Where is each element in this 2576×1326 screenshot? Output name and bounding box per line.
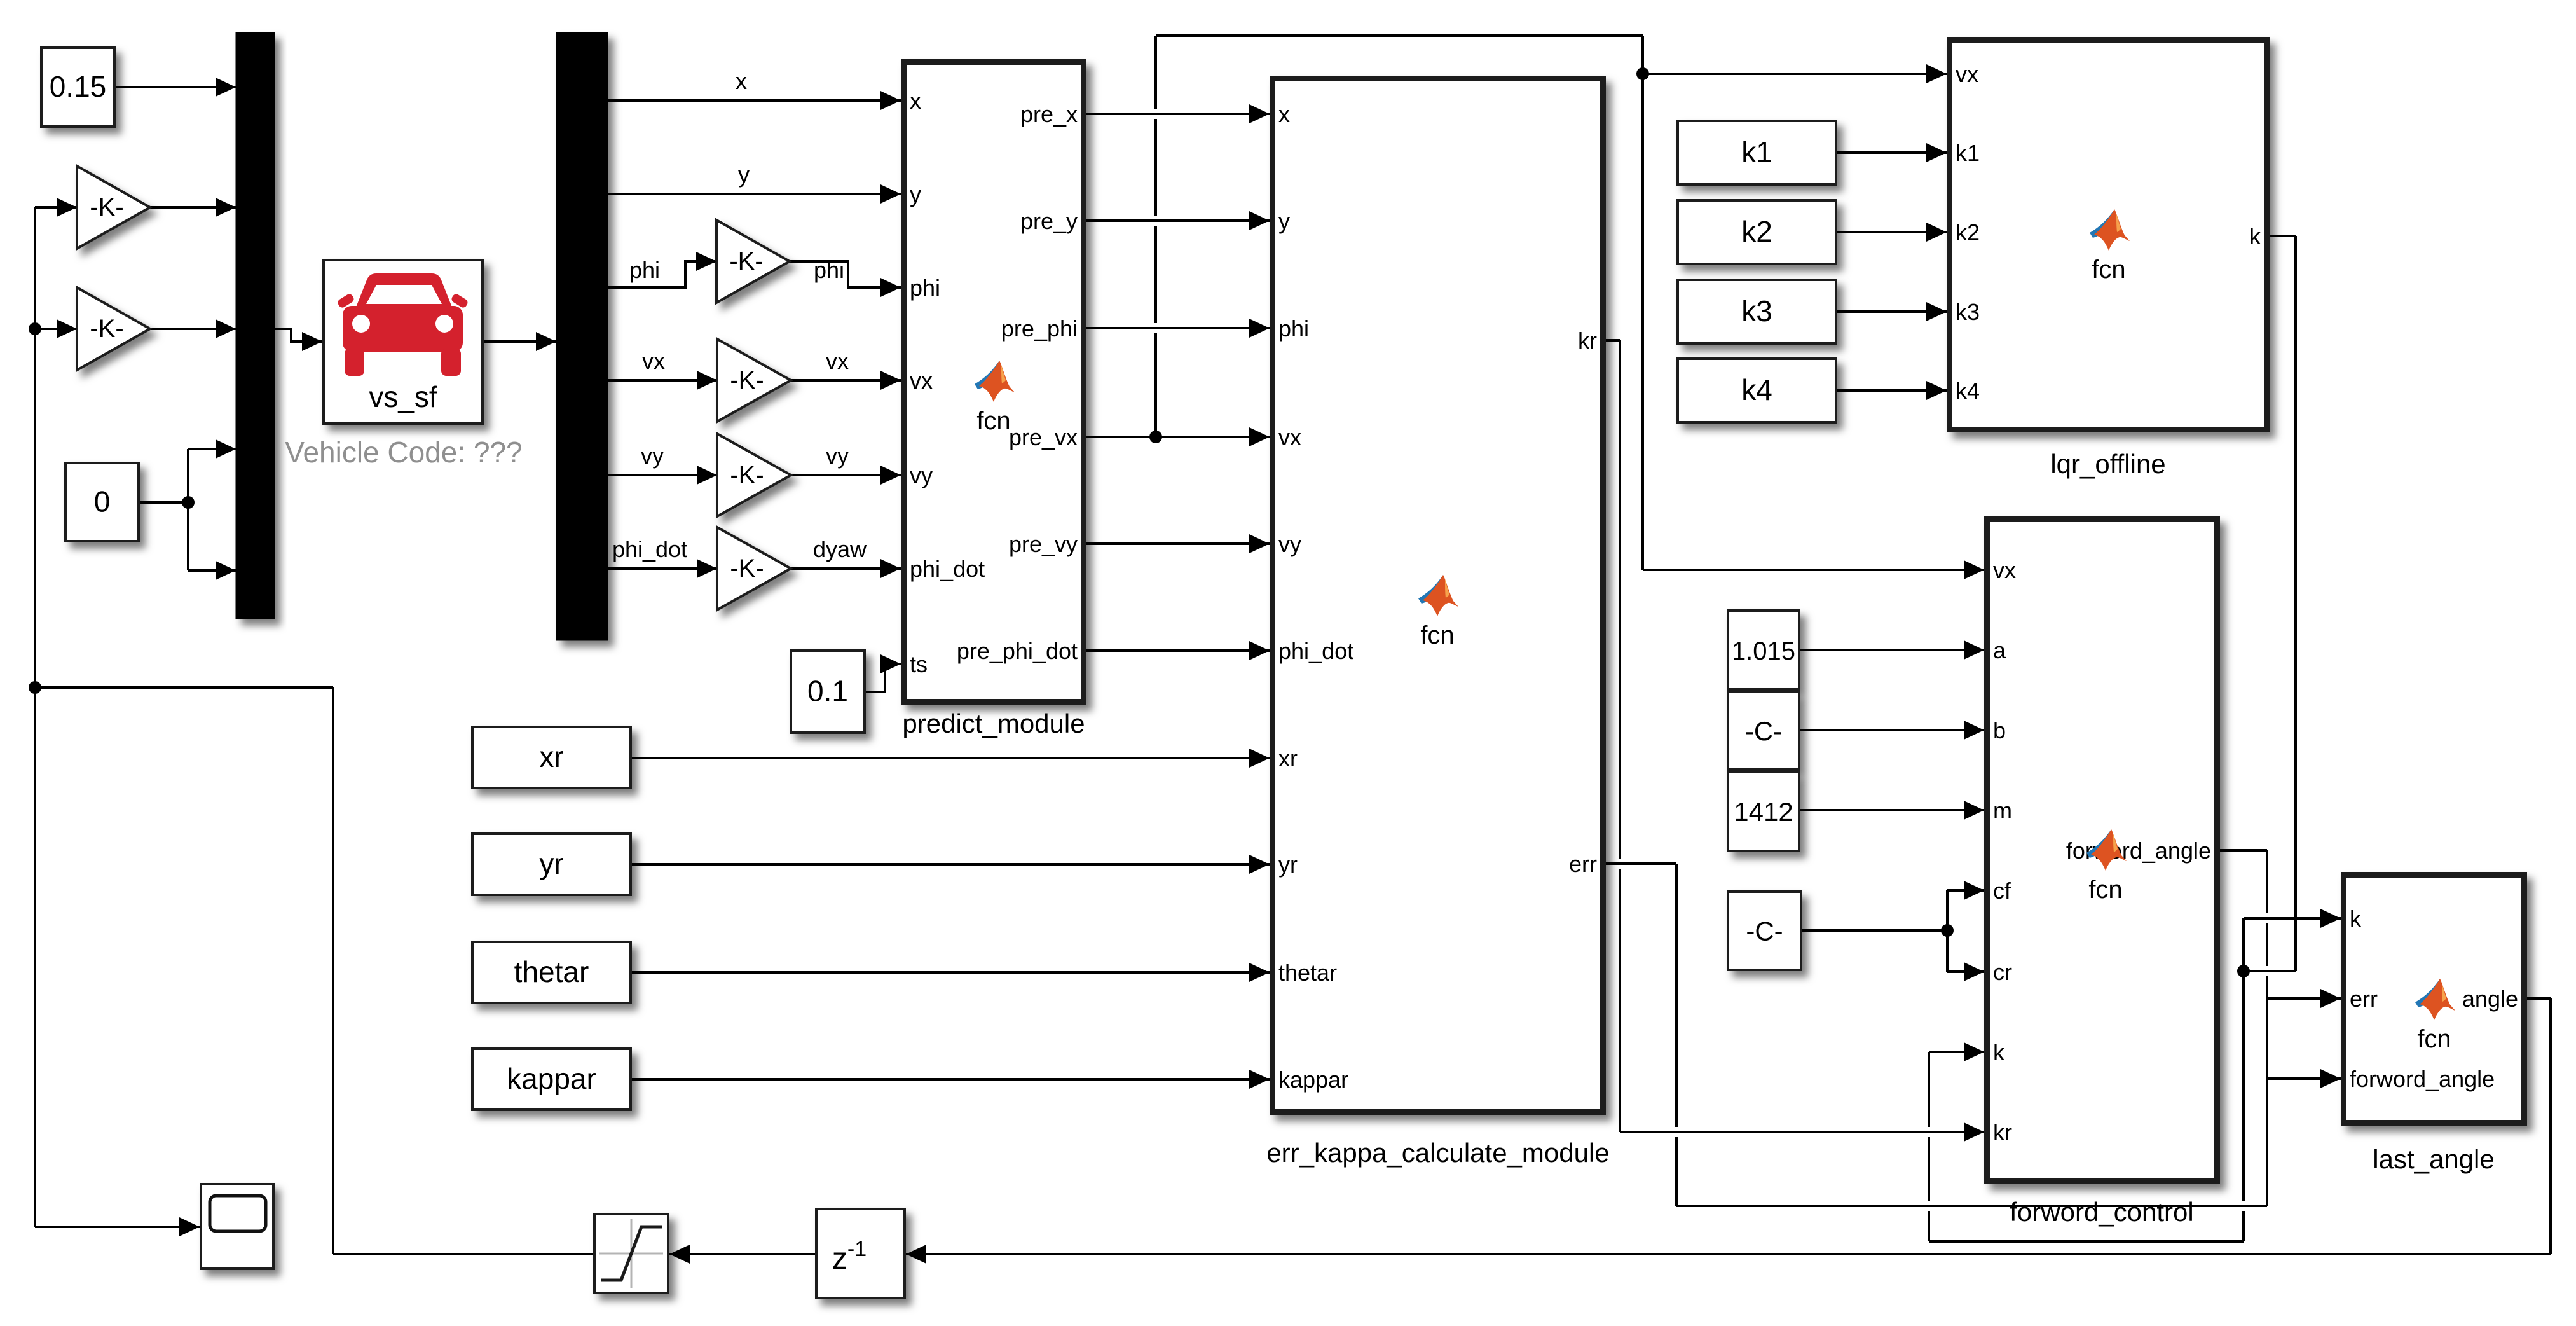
car icon — [336, 273, 469, 376]
constant k4 — [1678, 359, 1836, 422]
svg-text:x: x — [1278, 101, 1290, 127]
svg-text:lqr_offline: lqr_offline — [2050, 449, 2165, 479]
wire — [188, 448, 236, 450]
svg-text:0: 0 — [94, 485, 111, 518]
wire — [1802, 929, 1947, 932]
wire — [1947, 970, 1984, 973]
constant 0.15 — [41, 48, 114, 127]
wire — [2242, 971, 2245, 1241]
svg-text:thetar: thetar — [514, 955, 589, 988]
constant 1.015 — [1728, 611, 1799, 689]
wire — [632, 863, 1270, 866]
svg-text:-K-: -K- — [730, 366, 764, 394]
arrowhead — [1964, 801, 1984, 820]
arrowhead — [697, 559, 717, 578]
svg-text:y: y — [738, 162, 750, 188]
arrowhead — [1964, 1042, 1984, 1061]
wire — [188, 569, 236, 572]
subsystem err_kappa_calculate_module — [1273, 79, 1603, 1112]
svg-text:-K-: -K- — [729, 247, 763, 275]
arrowhead — [216, 78, 236, 97]
svg-text:-C-: -C- — [1745, 716, 1782, 746]
svg-text:err_kappa_calculate_module: err_kappa_calculate_module — [1266, 1138, 1609, 1168]
wire — [150, 328, 236, 330]
wire — [35, 686, 333, 689]
svg-text:forword_control: forword_control — [2010, 1197, 2193, 1227]
subsystem lqr_offline — [1950, 40, 2267, 430]
svg-text:-K-: -K- — [90, 193, 123, 221]
svg-text:cr: cr — [1993, 959, 2012, 985]
wire — [2294, 236, 2297, 971]
arrowhead — [696, 252, 716, 271]
wire — [906, 1253, 2551, 1255]
arrowhead — [1964, 721, 1984, 740]
svg-text:vx: vx — [1278, 424, 1301, 450]
svg-text:a: a — [1993, 637, 2006, 663]
wire — [1676, 1205, 2267, 1207]
svg-text:vx: vx — [826, 348, 849, 374]
svg-text:pre_vy: pre_vy — [1009, 531, 1078, 557]
constant yr — [472, 834, 631, 895]
wire — [1086, 542, 1270, 545]
svg-text:ts: ts — [910, 651, 928, 677]
arrowhead — [216, 561, 236, 580]
svg-text:1.015: 1.015 — [1732, 637, 1795, 665]
wire — [1620, 1131, 1984, 1133]
wire — [187, 449, 189, 570]
wire — [608, 193, 901, 195]
constant k2 — [1678, 200, 1836, 264]
svg-text:0.15: 0.15 — [50, 70, 107, 103]
wire — [608, 379, 717, 382]
fcn MATLAB icon — [1418, 575, 1458, 616]
wire — [2549, 998, 2552, 1254]
arrowhead — [302, 332, 322, 351]
fcn MATLAB icon — [975, 361, 1015, 402]
svg-text:phi_dot: phi_dot — [910, 556, 985, 582]
wire — [35, 1226, 200, 1228]
svg-text:fcn: fcn — [976, 407, 1010, 435]
arrowhead — [57, 319, 77, 338]
wire — [1947, 889, 1984, 892]
wire — [1800, 649, 1984, 651]
wire — [1929, 1051, 1984, 1053]
svg-text:pre_y: pre_y — [1020, 208, 1078, 234]
wire — [1643, 73, 1947, 75]
wire — [608, 474, 717, 476]
wire — [1643, 569, 1984, 571]
svg-text:k1: k1 — [1956, 140, 1980, 166]
wire — [1086, 327, 1270, 329]
svg-text:k4: k4 — [1741, 373, 1772, 406]
unit delay z-1 — [816, 1209, 905, 1298]
arrowhead — [1964, 1122, 1984, 1142]
svg-text:kr: kr — [1993, 1119, 2012, 1145]
svg-text:vx: vx — [642, 348, 665, 374]
svg-text:vy: vy — [641, 443, 664, 469]
wire — [1619, 340, 1621, 1132]
wire — [790, 261, 901, 287]
arrowhead — [1249, 211, 1270, 230]
constant xr — [472, 727, 631, 788]
arrowhead — [1249, 855, 1270, 874]
svg-text:phi: phi — [1278, 315, 1309, 342]
arrowhead — [216, 198, 236, 217]
wire — [608, 261, 716, 287]
wire — [866, 664, 901, 692]
fcn MATLAB icon — [2415, 979, 2455, 1020]
svg-text:k2: k2 — [1956, 219, 1980, 245]
wire — [275, 329, 322, 342]
arrowhead — [1249, 641, 1270, 660]
svg-text:pre_x: pre_x — [1020, 101, 1078, 127]
constant k3 — [1678, 280, 1836, 343]
constant kappar — [472, 1049, 631, 1110]
gain -K- 4 — [717, 339, 791, 422]
svg-text:predict_module: predict_module — [902, 708, 1085, 738]
arrowhead — [2320, 909, 2341, 928]
arrowhead — [57, 198, 77, 217]
wire — [2270, 235, 2296, 237]
svg-text:0.1: 0.1 — [807, 675, 848, 708]
gain -K- 2 — [77, 287, 150, 370]
svg-text:yr: yr — [1278, 852, 1298, 878]
svg-text:pre_phi_dot: pre_phi_dot — [957, 638, 1078, 664]
wire — [35, 206, 77, 209]
wire — [1928, 1052, 1930, 1241]
wire — [2267, 997, 2341, 1000]
svg-text:kr: kr — [1578, 328, 1597, 354]
svg-text:m: m — [1993, 798, 2012, 824]
svg-text:b: b — [1993, 717, 2006, 743]
wire — [1641, 36, 1644, 570]
constant thetar — [472, 942, 631, 1003]
wire — [791, 379, 901, 382]
constant 0 — [65, 463, 139, 541]
svg-text:vy: vy — [826, 443, 849, 469]
arrowhead — [669, 1245, 690, 1264]
wire — [791, 474, 901, 476]
svg-text:phi: phi — [629, 257, 660, 283]
wire — [35, 328, 77, 330]
constant 1412 — [1728, 772, 1799, 851]
svg-text:k: k — [1993, 1039, 2005, 1065]
constant -C- b — [1728, 692, 1799, 770]
constant -C- cf cr — [1728, 892, 1801, 970]
wire — [1086, 219, 1270, 222]
junction — [1941, 924, 1954, 937]
wire — [1946, 890, 1949, 972]
svg-text:vx: vx — [1993, 557, 2016, 583]
arrowhead — [880, 371, 901, 390]
wire — [1606, 339, 1620, 342]
svg-text:kappar: kappar — [1278, 1067, 1348, 1093]
constant 0.1 — [791, 651, 865, 733]
wire — [608, 99, 901, 102]
svg-text:kappar: kappar — [507, 1062, 596, 1095]
svg-text:k3: k3 — [1956, 299, 1980, 325]
arrowhead — [880, 654, 901, 673]
wire — [333, 1253, 593, 1255]
constant k1 — [1678, 121, 1836, 184]
wire — [2244, 917, 2341, 920]
arrowhead — [880, 184, 901, 204]
svg-text:fcn: fcn — [2092, 256, 2125, 284]
wire — [1837, 231, 1947, 233]
svg-text:k1: k1 — [1741, 135, 1772, 169]
svg-text:err: err — [1569, 851, 1597, 877]
wire — [1606, 862, 1676, 865]
arrowhead — [1249, 963, 1270, 982]
wire — [1837, 389, 1947, 392]
arrowhead — [1926, 223, 1947, 242]
wire — [1837, 151, 1947, 154]
svg-text:cf: cf — [1993, 878, 2011, 904]
svg-text:forword_angle: forword_angle — [2066, 838, 2211, 864]
arrowhead — [179, 1217, 200, 1236]
wire — [2267, 1077, 2341, 1080]
svg-text:vx: vx — [910, 368, 933, 394]
junction — [182, 496, 195, 509]
wire — [608, 567, 717, 570]
svg-text:vs_sf: vs_sf — [369, 380, 437, 413]
wire — [1675, 864, 1678, 1206]
arrowhead — [1249, 319, 1270, 338]
arrowhead — [216, 319, 236, 338]
svg-text:thetar: thetar — [1278, 960, 1337, 986]
arrowhead — [1249, 427, 1270, 446]
arrowhead — [1926, 381, 1947, 400]
wire — [1086, 649, 1270, 652]
svg-text:k: k — [2350, 906, 2362, 932]
wire — [791, 567, 901, 570]
wire — [1156, 34, 1643, 37]
wire — [632, 757, 1270, 759]
svg-text:k3: k3 — [1741, 294, 1772, 328]
wire — [1800, 809, 1984, 811]
svg-text:1412: 1412 — [1734, 797, 1793, 827]
wire — [2220, 849, 2267, 852]
arrowhead — [1926, 302, 1947, 321]
svg-text:fcn: fcn — [2417, 1025, 2451, 1053]
wire — [484, 340, 556, 343]
svg-text:fcn: fcn — [2088, 876, 2122, 904]
svg-text:phi: phi — [814, 257, 844, 283]
gain -K- 5 — [717, 434, 791, 516]
svg-text:-K-: -K- — [90, 315, 123, 343]
arrowhead — [906, 1245, 926, 1264]
wire — [150, 206, 236, 209]
fcn MATLAB icon — [2086, 829, 2127, 871]
arrowhead — [1249, 534, 1270, 553]
arrowhead — [880, 278, 901, 297]
wire — [632, 1078, 1270, 1081]
arrowhead — [697, 371, 717, 390]
subsystem forword_control — [1987, 520, 2217, 1182]
wire — [669, 1253, 815, 1255]
scope screen — [210, 1196, 266, 1231]
svg-text:phi_dot: phi_dot — [612, 536, 687, 562]
wire — [140, 501, 188, 504]
wire — [1837, 310, 1947, 313]
wire — [1800, 729, 1984, 731]
wire — [116, 86, 236, 88]
junction — [1149, 431, 1162, 443]
arrowhead — [536, 332, 556, 351]
svg-text:yr: yr — [539, 847, 563, 880]
wire — [332, 687, 334, 1254]
arrowhead — [1926, 143, 1947, 162]
arrowhead — [1249, 104, 1270, 123]
subsystem vs_sf — [324, 260, 483, 424]
arrowhead — [216, 439, 236, 459]
svg-text:k2: k2 — [1741, 215, 1772, 248]
arrowhead — [880, 559, 901, 578]
svg-text:forword_angle: forword_angle — [2350, 1066, 2495, 1092]
svg-text:pre_phi: pre_phi — [1001, 315, 1078, 342]
svg-text:x: x — [910, 88, 921, 114]
svg-text:phi_dot: phi_dot — [1278, 638, 1353, 664]
subsystem last_angle — [2344, 875, 2525, 1123]
arrowhead — [1964, 560, 1984, 579]
gain -K- 3 — [716, 220, 790, 303]
svg-text:phi: phi — [910, 275, 940, 301]
junction — [29, 681, 41, 694]
wire — [2242, 918, 2245, 971]
arrowhead — [880, 91, 901, 110]
arrowhead — [1964, 962, 1984, 981]
svg-text:k4: k4 — [1956, 378, 1980, 404]
junction — [29, 322, 41, 335]
svg-text:y: y — [1278, 208, 1290, 234]
svg-text:err: err — [2350, 986, 2378, 1012]
svg-text:-K-: -K- — [730, 461, 764, 489]
wire — [632, 971, 1270, 974]
svg-text:k: k — [2249, 223, 2261, 249]
wire — [34, 207, 36, 1227]
svg-text:xr: xr — [1278, 745, 1298, 771]
svg-text:Vehicle Code: ???: Vehicle Code: ??? — [285, 436, 522, 469]
gain -K- 6 — [717, 527, 791, 610]
svg-text:last_angle: last_angle — [2373, 1144, 2494, 1174]
arrowhead — [1964, 640, 1984, 660]
arrowhead — [697, 466, 717, 485]
wire — [2527, 997, 2551, 1000]
wire — [2266, 850, 2268, 1206]
arrowhead — [1964, 881, 1984, 900]
svg-text:y: y — [910, 181, 921, 207]
wire — [1086, 113, 1270, 115]
svg-text:dyaw: dyaw — [813, 536, 867, 562]
arrowhead — [2320, 1069, 2341, 1088]
svg-text:vx: vx — [1956, 61, 1978, 87]
svg-text:-K-: -K- — [730, 555, 764, 583]
svg-text:angle: angle — [2462, 986, 2518, 1012]
svg-text:xr: xr — [539, 740, 563, 773]
svg-text:x: x — [736, 68, 747, 94]
subsystem predict_module — [904, 62, 1084, 702]
demux bar — [556, 32, 608, 640]
saturation — [594, 1214, 668, 1293]
svg-text:-C-: -C- — [1746, 916, 1783, 946]
junction — [2237, 965, 2250, 977]
svg-text:fcn: fcn — [1420, 621, 1454, 649]
mux bar — [236, 32, 275, 619]
arrowhead — [1926, 64, 1947, 83]
wire — [2244, 970, 2296, 972]
scope — [201, 1184, 273, 1269]
arrowhead — [1249, 749, 1270, 768]
svg-text:vy: vy — [1278, 531, 1301, 557]
junction — [1636, 67, 1649, 80]
arrowhead — [2320, 989, 2341, 1008]
wire — [1154, 36, 1157, 437]
svg-text:vy: vy — [910, 462, 933, 488]
svg-text:pre_vx: pre_vx — [1009, 424, 1078, 450]
arrowhead — [880, 466, 901, 485]
arrowhead — [1249, 1070, 1270, 1089]
wire — [1086, 436, 1270, 438]
saturation icon — [599, 1219, 663, 1288]
gain -K- 1 — [77, 166, 150, 249]
wire — [1929, 1240, 2244, 1243]
fcn MATLAB icon — [2090, 209, 2130, 251]
